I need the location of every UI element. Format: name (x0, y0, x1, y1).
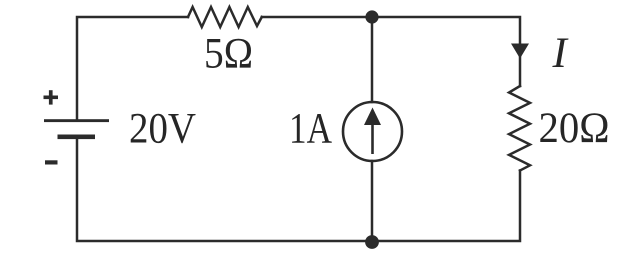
battery V1 plate short negative (58, 135, 96, 140)
current arrow I on right branch (511, 44, 529, 59)
svg-text:20Ω: 20Ω (539, 105, 610, 152)
current source U1 circle (343, 102, 402, 161)
wire middle branch bottom (371, 161, 374, 242)
wire right-bottom segment (77, 139, 520, 241)
svg-text:20V: 20V (129, 106, 196, 153)
junction node bottom (365, 235, 379, 249)
wire top-left segment (77, 17, 188, 120)
wire top-right segment (262, 17, 520, 86)
svg-text:5Ω: 5Ω (204, 31, 253, 78)
battery minus sign (45, 160, 58, 164)
current source arrow head (364, 108, 381, 126)
battery plus sign (44, 90, 59, 104)
battery V1 plate long positive (44, 119, 109, 122)
current source arrow shaft (371, 122, 374, 154)
resistor R2 zigzag 20ohm (509, 86, 530, 171)
wire middle branch top (371, 17, 374, 102)
svg-text:1A: 1A (289, 106, 332, 153)
svg-text:I: I (552, 30, 569, 77)
resistor R1 zigzag 5ohm (188, 7, 262, 27)
junction node top (365, 10, 378, 23)
